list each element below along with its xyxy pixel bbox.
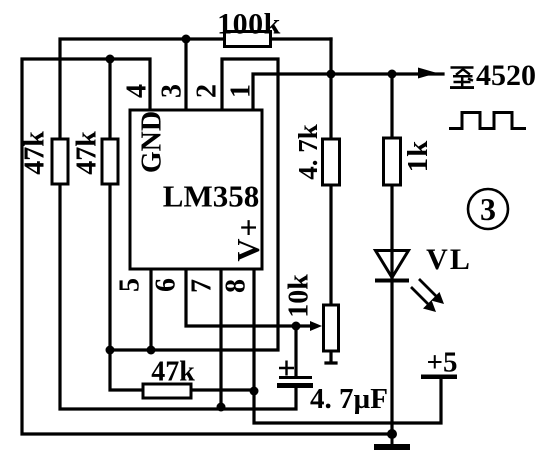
wire output rail from pin 1 to 4520: [253, 74, 443, 110]
resistor R4 4.7k: [293, 124, 340, 185]
node output/4.7k: [327, 70, 336, 79]
node 47k R3 bottom: [106, 346, 115, 355]
wire pin 6 to potentiometer wiper: [186, 269, 316, 326]
svg-text:3: 3: [480, 191, 496, 227]
svg-text:2: 2: [192, 84, 223, 98]
svg-text:100k: 100k: [217, 8, 281, 41]
resistor R5 1k: [384, 138, 435, 185]
svg-text:47k: 47k: [20, 131, 51, 175]
svg-text:4: 4: [122, 84, 153, 98]
label zhi 4520: [450, 59, 536, 92]
svg-text:1k: 1k: [402, 140, 434, 173]
svg-text:5: 5: [115, 278, 146, 292]
capacitor C1 4.7uF: [277, 361, 388, 416]
output arrow to 4520: [418, 68, 437, 79]
svg-text:47k: 47k: [72, 131, 103, 175]
wire LED chain from output rail to ground: [390, 74, 393, 434]
svg-text:V+: V+: [230, 216, 266, 261]
resistor R1 100k: [217, 8, 281, 47]
wire capacitor top lead: [294, 326, 297, 377]
power +5: [421, 347, 458, 380]
svg-text:4. 7µF: 4. 7µF: [310, 383, 388, 415]
svg-text:3: 3: [157, 84, 188, 98]
svg-text:LM358: LM358: [163, 179, 259, 214]
svg-text:8: 8: [221, 279, 252, 293]
svg-text:VL: VL: [426, 243, 472, 276]
wire top feedback rail through R1 and left 47k R2 branch down to bottom node rail: [60, 39, 331, 409]
svg-text:+5: +5: [426, 347, 457, 379]
svg-text:4. 7k: 4. 7k: [293, 124, 323, 180]
node ground: [387, 429, 397, 439]
svg-text:1: 1: [226, 84, 257, 98]
wire 47k R3 branch: top node to bottom 47k resistor wire to pin8 line: [110, 59, 254, 390]
resistor R3 47k (second): [72, 131, 119, 184]
node 47k R6 right / pin8: [250, 387, 259, 396]
node pin3/top rail: [182, 35, 191, 44]
wire R4 chain: 100k right end down through 4.7k to potentiometer: [329, 39, 332, 305]
node pin7 / bottom rail: [217, 403, 226, 412]
wire pin 7: [219, 269, 222, 407]
node output/1k: [388, 70, 397, 79]
wire pin 5: [149, 269, 152, 350]
circled figure number 3: [468, 189, 508, 229]
svg-text:6: 6: [151, 278, 182, 292]
wire pin 3: [184, 39, 187, 110]
wire pin 8 V+ rail to +5: [254, 269, 441, 423]
square wave symbol: [449, 113, 526, 129]
resistor R2 47k (left): [20, 131, 69, 184]
wire node A: pin5/pin2 junction wire with right-side loop up to pin 2: [110, 59, 278, 350]
svg-text:7: 7: [187, 279, 218, 293]
svg-text:10k: 10k: [284, 274, 315, 318]
ground: [374, 434, 410, 450]
resistor R6 47k (bottom): [143, 357, 195, 399]
wire ground net: pin4 left loop and bottom ground rail: [22, 59, 392, 434]
node capacitor top: [292, 322, 301, 331]
svg-text:47k: 47k: [151, 357, 195, 388]
svg-text:GND: GND: [137, 111, 168, 173]
wire potentiometer bottom stub: [326, 351, 336, 363]
potentiometer RP 10k: [284, 274, 339, 351]
svg-text:4520: 4520: [476, 59, 536, 92]
LED VL: [375, 243, 472, 312]
op-amp U1 LM358 box: [130, 110, 266, 269]
node 47k R3 top: [106, 55, 115, 64]
node pin5: [147, 346, 156, 355]
